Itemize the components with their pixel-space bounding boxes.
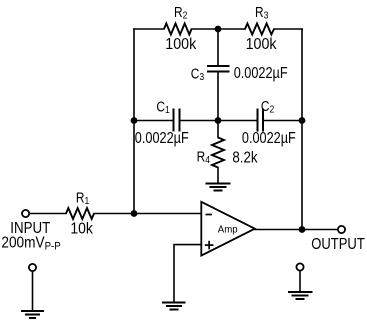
svg-text:100k: 100k <box>246 37 277 54</box>
svg-text:Amp: Amp <box>218 224 238 235</box>
svg-text:8.2k: 8.2k <box>232 150 258 167</box>
svg-text:0.0022µF: 0.0022µF <box>135 130 189 147</box>
svg-text:10k: 10k <box>70 221 93 238</box>
svg-text:OUTPUT: OUTPUT <box>311 236 365 253</box>
svg-text:100k: 100k <box>165 37 196 54</box>
svg-text:0.0022µF: 0.0022µF <box>242 130 296 147</box>
svg-text:0.0022µF: 0.0022µF <box>234 65 288 82</box>
